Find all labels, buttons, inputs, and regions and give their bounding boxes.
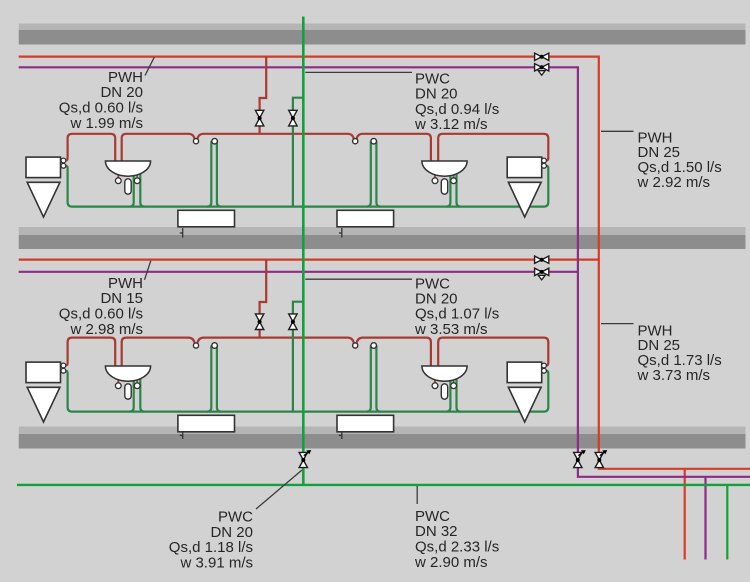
valve PWH riser floor 1 [535,53,549,60]
washbasin 2 floor 2 trap [441,384,447,399]
washbasin 2 floor 1 hot tap [432,178,438,184]
svg-text:w 2.92 m/s: w 2.92 m/s [637,174,711,191]
WC floor 1 bowl [508,182,541,217]
svg-text:w 2.98 m/s: w 2.98 m/s [69,321,143,338]
leader line PWH label floor 1 [145,57,154,75]
washbasin 1 floor 2 trap [125,384,131,399]
WC floor 2 cistern [507,362,542,383]
PWH floor isolating drop pipe floor 2 [260,260,267,338]
valve PWH riser floor 2 [535,256,549,263]
bathtub 1 floor 2 hot connection [193,343,198,348]
label PWC bottom main [414,508,499,571]
label PWC floor 2 [414,275,499,338]
washbasin 1 floor 1 cold tap [134,178,140,184]
svg-text:w 3.73 m/s: w 3.73 m/s [637,367,711,384]
PWC tap stubs under washbasins floor 1 [137,173,453,181]
svg-text:w 1.99 m/s: w 1.99 m/s [69,115,143,132]
valve PWH-C riser floor 1 [535,64,549,76]
drain valve PWH-C riser [574,450,586,467]
leader line PWC riser label bottom [256,470,302,509]
bathtub 2 floor 1 hot connection [353,139,358,144]
PWC cold water loop pipe floor 2 [66,346,549,412]
concrete slab floor 2 [19,227,746,249]
PWH tap stubs under washbasins floor 2 [118,378,435,386]
WC floor 2 connection points [542,363,547,373]
bathtub 2 floor 1 cold connection [371,138,377,144]
valve PWH-C riser floor 2 [535,268,549,280]
leader line PWH riser label floor 2 [601,323,634,325]
WC floor 2 bowl [508,387,541,422]
PWH supply loop pipe floor 2 [66,338,549,372]
bathtub 2 floor 2 cold connection [371,343,377,349]
leader line PWC label floor 2 [305,278,412,280]
drain valve PWH riser [595,450,607,467]
WC floor 1 cistern [507,157,542,178]
WC floor 1 connection points [542,158,547,168]
PWH-C circulation pipe floor 2 [19,271,578,273]
PWH supply loop pipe floor 1 [66,134,549,167]
drain valve PWC riser [299,450,311,467]
bathtub 2 floor 1 [337,210,394,227]
PWC floor isolating drop pipe floor 2 [293,302,303,412]
urinal floor 2 bowl [27,387,60,422]
label PWC floor 1 [414,70,499,133]
valve PWC floor 1 [289,110,297,126]
leader line PWH label floor 2 [145,261,151,280]
washbasin 2 floor 1 cold tap [451,178,457,184]
svg-text:w 2.90 m/s: w 2.90 m/s [414,554,488,571]
urinal floor 1 connection points [61,158,66,168]
washbasin 2 floor 1 bowl [422,161,467,176]
PWC cold water loop pipe floor 1 [66,141,549,206]
PWH floor isolating drop pipe floor 1 [260,57,267,134]
urinal floor 2 connection points [61,363,66,373]
label PWC riser bottom [169,508,253,571]
washbasin 2 floor 2 hot tap [432,383,438,389]
label PWH floor 2 [59,275,143,338]
svg-text:w 3.53 m/s: w 3.53 m/s [414,321,488,338]
label PWH riser floor 1 [637,129,722,191]
valve PWC floor 2 [289,314,297,330]
PWC bottom distribution pipe DN 32 [17,484,750,486]
valve PWH floor 1 [255,110,263,126]
PWH distribution pipe floor 1 and riser DN 25 [19,57,750,469]
label PWH riser floor 2 [637,322,722,384]
washbasin 2 floor 2 cold tap [451,383,457,389]
svg-text:w 3.12 m/s: w 3.12 m/s [414,116,488,133]
valve PWH floor 2 [255,314,263,330]
PWC riser pipe DN 20 [302,17,305,485]
PWH tap stubs under washbasins floor 1 [118,173,435,181]
bathtub 1 floor 1 cold connection [212,138,218,144]
PWH bottom branch drop [684,469,686,560]
washbasin 2 floor 1 trap [441,179,447,194]
concrete slab floor 1 [19,24,746,45]
PWC floor isolating drop pipe floor 1 [293,98,303,207]
leader line PWC label floor 1 [305,71,412,73]
bathtub 2 floor 2 hot connection [353,343,358,348]
bathtub 1 floor 2 drain [180,432,183,439]
PWH distribution pipe floor 2 [19,259,599,261]
bathtub 1 floor 1 drain [180,228,183,238]
washbasin 1 floor 1 trap [125,179,131,194]
bathtub 1 floor 2 [178,415,235,432]
urinal floor 2 cistern [26,362,61,383]
washbasin 1 floor 2 cold tap [134,383,140,389]
washbasin 2 floor 2 bowl [422,366,467,381]
washbasin 1 floor 1 bowl [105,161,150,176]
urinal floor 1 bowl [27,182,60,217]
urinal floor 1 cistern [26,157,61,178]
bathtub 1 floor 2 cold connection [212,343,218,349]
PWC bottom branch drop [726,485,728,560]
bathtub 1 floor 1 hot connection [193,139,198,144]
washbasin 1 floor 1 hot tap [115,178,121,184]
label PWH floor 1 [59,69,143,132]
concrete slab basement ceiling [19,427,746,449]
bathtub 2 floor 1 drain [339,228,342,238]
svg-text:w 3.91 m/s: w 3.91 m/s [179,555,253,572]
bathtub 2 floor 2 [337,415,394,432]
leader line PWH riser label floor 1 [601,130,634,132]
PWH-C bottom branch drop [704,477,706,560]
leader line PWC bottom label [416,486,418,504]
bathtub 1 floor 1 [178,210,235,227]
washbasin 1 floor 2 hot tap [115,383,121,389]
washbasin 1 floor 2 bowl [105,366,150,381]
PWH-C circulation pipe floor 1 and riser [19,67,750,477]
PWC tap stubs under washbasins floor 2 [137,378,453,386]
bathtub 2 floor 2 drain [339,432,342,439]
